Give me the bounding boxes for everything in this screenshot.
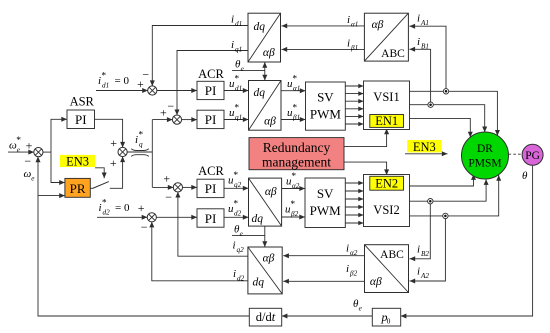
svg-text:+: + xyxy=(160,106,167,120)
summing junction Jq2 (i_q2 error) xyxy=(173,183,182,192)
wire i_d2 feedback up into Jd2 xyxy=(152,222,248,281)
gate signal arrow 2 SVPWM1 to VSI1 xyxy=(345,93,363,95)
svg-text:ACR: ACR xyxy=(198,164,224,178)
svg-text:PI: PI xyxy=(205,112,217,127)
transform block ab->ABC top (Clarke) xyxy=(364,13,408,61)
svg-text:ABC: ABC xyxy=(381,48,405,60)
wire i_q* branch column vertical xyxy=(151,120,153,188)
svg-text:d/dt: d/dt xyxy=(256,310,276,324)
svg-text:ACR: ACR xyxy=(198,67,224,81)
summing junction J2 (i_q* + PR) xyxy=(118,147,127,156)
svg-text:α2: α2 xyxy=(292,182,300,190)
gate signal arrow 5 SVPWM1 to VSI1 xyxy=(345,115,363,117)
svg-text:β2: β2 xyxy=(349,270,358,278)
svg-text:d2: d2 xyxy=(234,210,242,218)
svg-text:ASR: ASR xyxy=(70,95,95,109)
wire J1 output to branch column xyxy=(43,151,51,153)
wire i_d1 feedback from dq/ab block down into Jd1 xyxy=(152,26,248,87)
wire theta_e p0 to d/dt xyxy=(282,315,373,317)
EN3 enable arrow toward motor xyxy=(405,153,448,155)
wire redundancy to EN2 xyxy=(344,162,387,175)
svg-text:EN3: EN3 xyxy=(66,154,89,168)
wire u_q1* PI to dq->ab xyxy=(224,119,249,121)
svg-text:ABC: ABC xyxy=(380,249,404,261)
svg-text:i: i xyxy=(231,39,234,51)
wire redundancy to EN1 xyxy=(344,129,387,147)
svg-text:PR: PR xyxy=(70,181,86,196)
wire u_q2* PI to ab/dq block xyxy=(224,187,249,189)
svg-text:q2: q2 xyxy=(237,246,245,254)
gate signal arrow 3 SVPWM2 to VSI2 xyxy=(345,198,363,200)
svg-text:i: i xyxy=(346,243,349,255)
wire i_B1 sensor tap into ABC1 xyxy=(409,49,430,104)
svg-text:i: i xyxy=(233,240,236,252)
svg-text:*: * xyxy=(292,75,297,85)
svg-text:β1: β1 xyxy=(292,114,300,122)
wire i_A1 sensor tap into ABC1 xyxy=(409,26,446,91)
wire u_a1* to SV PWM1 xyxy=(281,90,306,92)
svg-text:*: * xyxy=(102,199,107,209)
svg-text:q1: q1 xyxy=(235,46,242,54)
gate signal arrow 6 SVPWM1 to VSI1 xyxy=(345,123,363,125)
wire w_e branch to PR input 2 xyxy=(38,195,65,197)
wire u_b1* to SV PWM1 xyxy=(281,119,306,121)
svg-text:d1: d1 xyxy=(102,82,109,90)
svg-text:EN3: EN3 xyxy=(413,140,436,154)
wire branch to Jq1 xyxy=(152,119,172,121)
gate signal arrow 4 SVPWM2 to VSI2 xyxy=(345,206,363,208)
break symbol on i_q* wire xyxy=(131,149,149,157)
EN3 enable label right xyxy=(407,140,441,152)
svg-text:d1: d1 xyxy=(235,85,242,93)
wire i_B2 sensor tap into ABC2 xyxy=(410,201,431,259)
svg-text:DR: DR xyxy=(477,143,493,155)
svg-text:i: i xyxy=(347,14,350,26)
svg-text:dq: dq xyxy=(251,213,263,225)
DR PMSM motor circle xyxy=(462,132,509,179)
summing junction Jq1 (i_q1 error) xyxy=(172,115,181,124)
svg-text:PMSM: PMSM xyxy=(468,157,501,169)
PR resonant controller box xyxy=(65,178,90,197)
svg-text:+: + xyxy=(163,172,170,186)
transform block ab->dq voltage 2 xyxy=(249,178,282,226)
svg-text:Redundancy: Redundancy xyxy=(263,140,331,155)
gate signal arrow 1 SVPWM2 to VSI2 xyxy=(345,182,363,184)
svg-text:*: * xyxy=(101,72,106,82)
SV PWM 2 box xyxy=(305,178,345,228)
wire i_d1*=0 reference into Jd1 xyxy=(96,90,148,92)
svg-text:α1: α1 xyxy=(351,20,358,28)
wire Jd2 output to ACR PI d2 xyxy=(156,216,197,218)
wire i_q2 feedback up into Jq2 xyxy=(178,192,248,256)
svg-text:+: + xyxy=(110,136,117,150)
ASR PI box xyxy=(67,110,95,129)
svg-text:αβ: αβ xyxy=(265,186,277,198)
wire i_d2*=0 reference into Jd2 xyxy=(97,216,147,218)
wire branch to ASR PI input xyxy=(51,119,67,152)
svg-text:PI: PI xyxy=(205,181,217,196)
svg-text:i: i xyxy=(233,268,236,280)
phase line 2 VSI1 to motor xyxy=(410,105,485,133)
svg-text:*: * xyxy=(291,172,296,182)
wire switch output up into J2 xyxy=(110,156,123,188)
EN3 enable label left xyxy=(60,155,95,167)
theta_e coupling arrows between top transform blocks xyxy=(264,62,266,81)
svg-text:d2: d2 xyxy=(103,209,111,217)
svg-text:PWM: PWM xyxy=(310,107,342,122)
svg-text:i: i xyxy=(417,13,420,25)
wire speed feedback w_e from d/dt xyxy=(38,157,249,317)
svg-text:A1: A1 xyxy=(420,19,429,27)
gate signal arrow 3 SVPWM1 to VSI1 xyxy=(345,100,363,102)
wire i_b2 ABC to ab/dq xyxy=(283,280,364,282)
svg-text:i: i xyxy=(346,263,349,275)
p0 pole pairs box xyxy=(372,308,400,326)
svg-text:B1: B1 xyxy=(421,42,429,50)
svg-text:*: * xyxy=(292,104,297,114)
svg-text:β2: β2 xyxy=(290,210,299,218)
wire branch down to PR input 1 xyxy=(51,152,65,182)
wire branch to Jq2 xyxy=(152,186,173,188)
current sensor i_A1 on phase line 1 xyxy=(443,89,448,94)
wire Jq1 output to ACR PI xyxy=(181,119,197,121)
transform block dq->ab voltage 1 xyxy=(249,81,282,131)
VSI2 inverter box xyxy=(364,175,410,227)
transform block dq->ab current top (Park inverse measure) xyxy=(248,13,281,62)
phase line 1 VSI2 to motor xyxy=(410,174,474,186)
wire PR output stub to switch xyxy=(90,187,92,189)
wire u_d2* PI to ab/dq block xyxy=(224,216,249,218)
phase line 3 VSI1 to motor xyxy=(410,118,471,137)
svg-text:*: * xyxy=(290,200,295,210)
transform block ABC->ab bottom (Clarke 2) xyxy=(365,245,409,293)
svg-text:*: * xyxy=(16,136,21,146)
VSI1 inverter box xyxy=(364,81,410,130)
svg-text:αβ: αβ xyxy=(370,276,382,288)
dashed shaft link DR PMSM to PG xyxy=(509,153,523,155)
svg-text:β1: β1 xyxy=(350,44,358,52)
wire u_a2* to SV PWM2 xyxy=(282,188,305,190)
svg-text:d2: d2 xyxy=(237,275,245,283)
svg-text:EN1: EN1 xyxy=(375,114,398,128)
summing junction Jd1 (i_d1 error) xyxy=(148,86,157,95)
wire EN3 control arrow onto switch xyxy=(95,168,104,178)
svg-text:α2: α2 xyxy=(350,249,358,257)
svg-text:PG: PG xyxy=(525,150,540,162)
svg-text:SV: SV xyxy=(317,90,334,105)
current sensor i_B2 on phase line 2 xyxy=(428,199,433,204)
svg-text:PWM: PWM xyxy=(310,203,342,218)
gate signal arrow 2 SVPWM2 to VSI2 xyxy=(345,190,363,192)
wire u_d1* PI to dq->ab xyxy=(224,90,249,92)
wire i_b1 ABC to dq/ab xyxy=(282,48,365,50)
svg-text:*: * xyxy=(138,131,143,141)
gate signal arrow 1 SVPWM1 to VSI1 xyxy=(345,85,363,87)
current sensor i_B1 on phase line 2 xyxy=(428,102,433,107)
redundancy management box xyxy=(249,138,344,170)
ACR PI box d2 xyxy=(197,209,224,227)
svg-text:dq: dq xyxy=(254,87,266,99)
svg-text:i: i xyxy=(417,36,420,48)
svg-text:A2: A2 xyxy=(420,272,429,280)
wire i_q1 feedback from dq/ab block down into Jq1 xyxy=(177,51,248,116)
svg-text:EN2: EN2 xyxy=(375,177,398,191)
svg-text:i: i xyxy=(417,266,420,278)
wire J2 output i_q* to branch column xyxy=(127,151,152,153)
gate signal arrow 5 SVPWM2 to VSI2 xyxy=(345,214,363,216)
svg-text:αβ: αβ xyxy=(263,47,275,59)
svg-text:i: i xyxy=(231,14,234,26)
switch blade (PR path, open) xyxy=(92,182,109,189)
ACR PI box q2 xyxy=(197,179,224,197)
svg-text:d1: d1 xyxy=(235,20,242,28)
phase line 2 VSI2 to motor xyxy=(410,179,487,201)
svg-text:q: q xyxy=(139,141,143,149)
svg-text:PI: PI xyxy=(205,211,217,226)
summing junction Jd2 (i_d2 error) xyxy=(147,213,156,222)
PG position generator circle xyxy=(522,144,543,165)
wire theta from PG down into p0 xyxy=(401,165,533,316)
theta_e coupling arrow into bottom current transform xyxy=(264,226,266,247)
svg-text:θ: θ xyxy=(522,170,528,182)
svg-text:PI: PI xyxy=(75,112,87,127)
svg-text:α1: α1 xyxy=(293,85,300,93)
svg-text:+: + xyxy=(138,201,145,215)
svg-text:management: management xyxy=(262,155,331,170)
wire i_a2 ABC to ab/dq xyxy=(283,255,364,257)
phase line 1 VSI1 to motor xyxy=(410,91,498,135)
svg-text:*: * xyxy=(233,171,238,181)
ACR PI box q1 xyxy=(197,110,224,128)
svg-text:dq: dq xyxy=(254,21,266,33)
wire speed reference w_e* input xyxy=(8,151,34,153)
wire ASR PI output down into J2 xyxy=(95,119,123,147)
phase line 3 VSI2 to motor xyxy=(410,175,499,216)
svg-text:q2: q2 xyxy=(234,181,242,189)
ACR PI box d1 xyxy=(197,81,224,99)
svg-text:−: − xyxy=(142,67,149,81)
svg-text:PI: PI xyxy=(205,83,217,98)
transform block ab->dq current bottom xyxy=(248,247,282,294)
svg-text:VSI2: VSI2 xyxy=(373,203,399,217)
summing junction J1 (speed error) xyxy=(34,148,43,157)
SV PWM 1 box xyxy=(306,82,346,130)
svg-text:αβ: αβ xyxy=(372,19,384,31)
svg-text:= 0: = 0 xyxy=(115,202,130,214)
svg-text:i: i xyxy=(347,38,350,50)
svg-text:+: + xyxy=(26,139,33,153)
svg-text:SV: SV xyxy=(317,186,334,201)
svg-text:*: * xyxy=(234,104,239,114)
svg-text:*: * xyxy=(233,200,238,210)
svg-text:+: + xyxy=(110,156,117,170)
gate signal arrow 6 SVPWM2 to VSI2 xyxy=(345,222,363,224)
wire u_b2* to SV PWM2 xyxy=(282,216,305,218)
svg-text:−: − xyxy=(165,190,172,204)
svg-text:αβ: αβ xyxy=(263,253,275,265)
EN2 enable box xyxy=(370,176,404,190)
current sensor i_A2 on phase line 3 xyxy=(443,213,448,218)
d/dt differentiator box xyxy=(249,308,281,326)
svg-text:−: − xyxy=(24,154,31,168)
svg-text:q1: q1 xyxy=(235,114,242,122)
EN1 enable box xyxy=(370,115,404,128)
wire i_a1 ABC to dq/ab xyxy=(282,25,365,27)
wire Jd1 output to ACR PI xyxy=(157,90,197,92)
svg-text:dq: dq xyxy=(252,277,264,289)
svg-text:VSI1: VSI1 xyxy=(373,90,399,104)
svg-text:0: 0 xyxy=(387,317,391,326)
svg-text:−: − xyxy=(141,220,148,234)
svg-text:−: − xyxy=(167,99,174,113)
svg-text:αβ: αβ xyxy=(264,116,276,128)
svg-text:= 0: = 0 xyxy=(115,75,130,87)
svg-text:*: * xyxy=(234,75,239,85)
gate signal arrow 4 SVPWM1 to VSI1 xyxy=(345,108,363,110)
svg-text:ω: ω xyxy=(24,168,32,180)
svg-text:B2: B2 xyxy=(421,250,429,258)
wire i_A2 sensor tap into ABC2 xyxy=(410,216,446,281)
svg-text:i: i xyxy=(417,244,420,256)
wire Jq2 output to ACR PI q2 xyxy=(182,186,197,188)
